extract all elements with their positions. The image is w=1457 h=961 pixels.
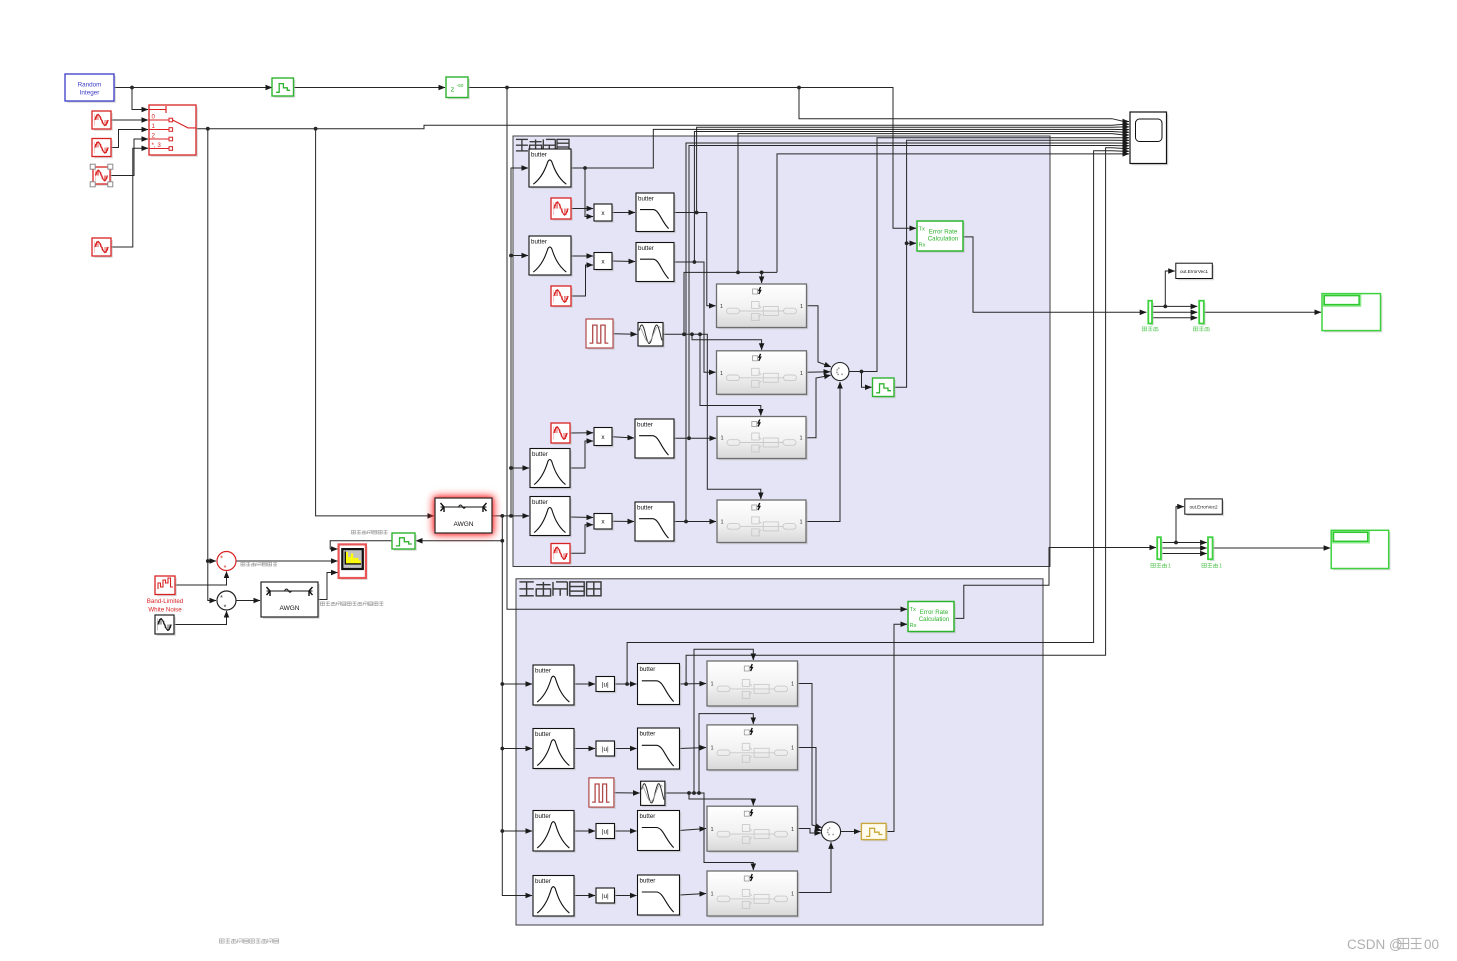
wire: nc abs1 to LP1: [615, 682, 637, 686]
block: product x1: [594, 204, 614, 223]
wire: nc trigger riser to SS2: [699, 714, 753, 793]
label: 分离器1: [1151, 563, 1171, 569]
block: oscillator envelope sync: [641, 781, 667, 807]
block: subsystem sampler 4: [717, 500, 808, 544]
wire: BP1 out up to scope line 4: [571, 129, 1129, 170]
block: subsystem sampler 1: [717, 284, 809, 329]
block: butter bandpass ncBP1: [533, 665, 576, 707]
block: abs 3: [596, 824, 616, 841]
wire: switch output east with step up, to scope line 2: [196, 124, 1129, 130]
block: product x3: [594, 428, 614, 448]
svg-text:butter: butter: [531, 239, 547, 246]
block: AWGN2 channel: [261, 582, 320, 619]
wire: sine1 to switch input 1: [111, 130, 148, 148]
block: subsystem nc sampler 1: [707, 661, 799, 708]
svg-text:1: 1: [791, 827, 794, 833]
wire: nc abs3 to LP3: [615, 830, 637, 832]
svg-text:Error Rate: Error Rate: [920, 609, 949, 616]
block: Display1: [1322, 294, 1382, 333]
block: sine src 1: [92, 139, 113, 159]
svg-text:1: 1: [710, 682, 713, 688]
wire: LP2 out east then corner down to SS2 input: [674, 260, 716, 372]
wire: BP3 out up to product3 lower input: [570, 441, 593, 468]
wire: sineA to product1 upper input: [571, 208, 593, 210]
wire: nc LP1 to SS1: [680, 682, 707, 686]
svg-text:butter: butter: [637, 422, 653, 429]
block: product x4: [594, 514, 614, 531]
svg-text:1: 1: [710, 746, 713, 752]
block: yellow stair (sampler): [861, 823, 888, 841]
svg-text:00: 00: [1424, 937, 1439, 952]
wire: SS4 out up into merge circle bottom: [807, 382, 841, 522]
wire: Sum1 out to spectrum scope input 2: [236, 560, 338, 562]
block: butter bandpass ncBP4: [533, 876, 576, 918]
svg-text:1: 1: [800, 304, 803, 310]
svg-text:AWGN: AWGN: [454, 521, 474, 528]
wire: nc BP1 to abs1: [574, 683, 595, 685]
wire: sine2 to switch input 2: [111, 139, 149, 176]
wire: riser LP1 to scope line 3: [697, 127, 1129, 213]
block: AWGN channel (selected, red glow): [435, 498, 492, 533]
block: carrier sine C: [551, 423, 572, 445]
wire: demux to mux line c: [1152, 317, 1197, 319]
svg-text:*: *: [220, 595, 223, 602]
wire: Random Integer output to Unit stair: [114, 86, 272, 90]
wire: Error Rate 2 out to demux1: [954, 548, 1156, 619]
block: Error Rate Calculation 2: [908, 602, 956, 634]
label: 合并器: [1193, 327, 1209, 331]
wire: AWGN signal up left edge to coherent BP1: [509, 168, 528, 516]
svg-text:|u|: |u|: [602, 893, 609, 900]
svg-text:1: 1: [791, 682, 794, 688]
wire: nc LP4 to SS4: [680, 894, 707, 896]
wire: product3 to LP3: [612, 437, 634, 438]
wire: carrier sync out to SS4 trigger: [663, 332, 761, 499]
svg-text:out.ErrorVec2: out.ErrorVec2: [1189, 505, 1218, 510]
svg-text:|u|: |u|: [602, 681, 609, 688]
svg-text:*: *: [224, 565, 227, 572]
wire: nc trigger riser to SS1: [694, 649, 753, 793]
wire: stair2 out up to Rx tee and scope line 8: [894, 140, 1129, 387]
wire: riser trigger to scope line 13: [777, 154, 1129, 273]
block: subsystem nc sampler 2: [707, 725, 799, 772]
block: butter lowpass ncLP4: [638, 875, 682, 917]
wire: demux1 to mux1 line a: [1162, 541, 1206, 545]
wire: nc BP3 to abs3: [574, 830, 595, 832]
wire: product1 to LP1: [612, 212, 635, 214]
wire: LP3 to SS3: [674, 436, 716, 440]
block: demux 分离器: [1148, 301, 1153, 326]
svg-text:Rx: Rx: [919, 243, 926, 249]
wire: drop from switch line to Sum2 left input: [206, 129, 216, 601]
wire: trigger line to SS1 and risers: [684, 271, 777, 335]
svg-text:-50: -50: [457, 83, 464, 89]
wire: LP4 to SS4: [674, 520, 716, 524]
label: 高斯白噪声与单频噪声 (bottom): [219, 939, 278, 943]
block: mux1 合并器1: [1208, 537, 1214, 561]
wire: sineC to product3 upper input: [570, 432, 593, 434]
wire: stub into Sum1 left input: [208, 560, 216, 562]
svg-text:Integer: Integer: [80, 90, 100, 97]
wire: SS2 out to merge circle: [807, 371, 831, 374]
block: subsystem sampler 2: [717, 351, 809, 396]
block: square wave clock 2: [589, 778, 616, 809]
wire: z-50 branch riser to scope line 1: [799, 88, 1129, 122]
label: 带限白噪声信道: [241, 562, 277, 566]
svg-text:1: 1: [720, 304, 723, 310]
svg-text:Tx: Tx: [919, 227, 926, 233]
svg-text:1: 1: [799, 519, 802, 525]
svg-text:butter: butter: [640, 731, 656, 738]
wire: square wave to carrier sync: [613, 333, 637, 336]
svg-text:1: 1: [710, 892, 713, 898]
block: Sum2 (circle): [217, 591, 236, 612]
wire: BP2 to product2 upper input: [571, 255, 593, 257]
wire: riser LP3 to scope line 10: [689, 146, 1129, 439]
wire: SS3 out to merge circle: [807, 375, 831, 438]
block: stair2 (green): [873, 378, 896, 398]
svg-text:*: *: [224, 605, 227, 612]
wire: merge circle out riser to scope line 7: [849, 138, 1129, 374]
wire: nc BP4 to abs4: [574, 895, 595, 897]
svg-text:1: 1: [1219, 564, 1222, 570]
label: watermark CSDN @追梦00: [1347, 937, 1439, 952]
svg-text:|u|: |u|: [602, 828, 609, 835]
wire: demux1 to mux1 line c: [1162, 553, 1206, 555]
wire: sync out to nc SS4 trigger: [665, 791, 753, 870]
svg-text:butter: butter: [535, 878, 551, 885]
wire: nc BP2 to abs2: [574, 748, 595, 750]
wire: stub to coh BP3: [511, 467, 529, 469]
wire: branch down into stair2: [862, 372, 872, 388]
wire: nc abs4 to LP4: [615, 895, 637, 897]
block: Scope (13 inputs): [1130, 112, 1168, 165]
svg-text:butter: butter: [535, 668, 551, 675]
block: out.ErrorVec1 (to workspace): [1176, 263, 1214, 280]
wire: mux1 out to Display2: [1213, 547, 1330, 549]
svg-text:butter: butter: [531, 152, 547, 159]
wire: riser LP4 to scope line 9: [686, 143, 1129, 522]
wire: stub to nc BP1: [502, 683, 532, 685]
svg-text:1: 1: [1168, 564, 1171, 570]
block: butter lowpass LP1: [636, 193, 676, 233]
wire: feed left into green stair3 (right side input): [416, 540, 502, 542]
svg-text:butter: butter: [640, 666, 656, 673]
block: stair3 (green, noise channel tap): [392, 533, 417, 551]
svg-text:1: 1: [791, 746, 794, 752]
block: butter lowpass LP3: [635, 419, 676, 460]
wire: nc LP1 riser to scope line 11: [686, 148, 1129, 684]
svg-text:butter: butter: [640, 813, 656, 820]
wire: BP1 out branch down to product1 lower input: [585, 168, 593, 217]
wire: sineB to product2 lower input: [571, 265, 593, 296]
block: oscillator carrier sync 1: [638, 323, 665, 348]
wire: nc abs1 riser to scope line 12: [627, 151, 1129, 684]
svg-text:CSDN @: CSDN @: [1347, 937, 1403, 952]
block: product x2: [594, 253, 614, 272]
svg-text:White Noise: White Noise: [148, 607, 182, 614]
block: sine src 2 (selected): [90, 164, 113, 187]
block: butter lowpass ncLP1: [638, 664, 682, 707]
wire: Sum2 out to AWGN2: [236, 600, 260, 602]
block: mux 合并器: [1199, 301, 1205, 326]
block: demux1 分离器1: [1157, 537, 1163, 561]
svg-text:0: 0: [152, 114, 156, 121]
svg-text:1: 1: [710, 827, 713, 833]
wire: stub to nc BP3: [502, 830, 532, 832]
block: butter bandpass BP4: [530, 497, 572, 538]
wire: stub to nc BP2: [502, 748, 532, 750]
block: Error Rate Calculation 1: [917, 221, 965, 253]
label: 高斯白噪声与单频噪声信道: [320, 602, 383, 606]
svg-text:butter: butter: [638, 196, 654, 203]
svg-text:butter: butter: [532, 499, 548, 506]
block: Sum1 (red circle): [217, 552, 236, 573]
label: 高斯白噪声信道: [351, 530, 387, 534]
wire: riser LP2 to scope line 5: [694, 132, 1129, 263]
wire: nc SS4 out up into merge circle 2 bottom: [798, 842, 832, 892]
wire: demux to mux line b: [1152, 311, 1197, 313]
block: merge circle 2: [821, 822, 840, 841]
block: butter lowpass LP2: [636, 243, 676, 284]
label: 合并器1: [1202, 563, 1222, 569]
wire: riser trigger to scope line 6: [738, 134, 1129, 273]
label: Band-Limited White Noise (red): [147, 598, 184, 614]
svg-text:butter: butter: [637, 505, 653, 512]
block: carrier sine B: [551, 286, 573, 308]
wire: z-50 out right then down to Error Rate 1 Tx: [468, 86, 916, 229]
svg-text:Random: Random: [78, 82, 102, 89]
wire: merge circle 2 out to yellow stair: [841, 831, 861, 833]
svg-text:1: 1: [800, 371, 803, 377]
wire: AWGN signal down left edge to non-coherent BP4: [500, 516, 532, 896]
wire: trigger riser to SS2: [692, 334, 762, 350]
wire: demux1 to mux1 line b: [1162, 547, 1206, 549]
wire: trigger riser to SS3: [700, 334, 761, 415]
wire: stair3 out to spectrum scope input 1: [330, 541, 392, 549]
block: sine src 3: [92, 238, 113, 258]
label: 分离器: [1142, 327, 1158, 331]
svg-text:*: *: [220, 556, 223, 563]
wire: stub to coh BP2: [511, 255, 528, 257]
block: carrier sine D: [551, 544, 572, 565]
svg-text:1: 1: [720, 519, 723, 525]
svg-text:|u|: |u|: [602, 746, 609, 753]
wire: nc SS3 out to merge circle 2: [798, 829, 822, 834]
block: carrier sine A: [551, 198, 573, 221]
block: subsystem nc sampler 3: [707, 806, 799, 853]
wire: nc abs2 to LP2: [615, 748, 637, 750]
block: butter bandpass BP2: [529, 236, 573, 277]
block: sine src 0: [92, 111, 113, 131]
block: butter bandpass ncBP2: [533, 729, 576, 771]
svg-text:Calculation: Calculation: [919, 616, 950, 623]
wire: LP1 out east then corner down to SS1 input: [674, 211, 716, 306]
wire: branch down to switch control input: [132, 88, 148, 110]
wire: tee up to out.ErrorVec2: [1176, 507, 1184, 543]
block: z^-50 delay: [446, 77, 470, 99]
block: spectrum analyzer: [339, 544, 368, 579]
wire: AWGN out to coherent BP4 input: [492, 514, 529, 518]
wire: trigger drop into SS1: [761, 272, 763, 283]
block: multiport switch (red): [149, 105, 198, 157]
wire: sine3 to switch input *,3: [111, 148, 148, 247]
svg-text:Band-Limited: Band-Limited: [147, 598, 184, 605]
block: abs 4: [596, 888, 616, 905]
wire: product4 to LP4: [612, 520, 634, 522]
block: Band-Limited White Noise: [155, 576, 177, 596]
svg-text:AWGN: AWGN: [280, 605, 300, 612]
svg-text:1: 1: [720, 436, 723, 442]
svg-text:butter: butter: [535, 813, 551, 820]
wire: demux to mux line a: [1152, 305, 1197, 309]
wire: drop from switch line into AWGN channel input: [316, 129, 434, 516]
svg-text:butter: butter: [535, 731, 551, 738]
wire: yellow stair out up to Error Rate 2 Rx: [886, 624, 907, 831]
svg-text:butter: butter: [640, 878, 656, 885]
svg-text:butter: butter: [638, 245, 654, 252]
wire: nc LP2 to SS2: [680, 748, 707, 749]
svg-text:1: 1: [791, 892, 794, 898]
block: abs 1: [596, 677, 616, 694]
block: merge circle 1: [831, 363, 849, 381]
block: butter bandpass BP3: [530, 449, 572, 490]
svg-text:Tx: Tx: [910, 607, 917, 613]
svg-text:z: z: [451, 85, 455, 94]
block: butter bandpass ncBP3: [533, 811, 576, 853]
wire: Band-Limited White Noise to Sum1 bottom: [175, 572, 227, 586]
block: Random Integer generator: [65, 74, 116, 103]
wire: SS1 out to merge circle: [807, 306, 831, 367]
block: butter lowpass ncLP2: [638, 728, 682, 771]
wire: sine tone source to Sum2 bottom: [174, 611, 227, 625]
wire: stub into Error Rate 1 Rx: [907, 242, 916, 244]
block: butter lowpass ncLP3: [638, 811, 682, 853]
block: single tone sine source (black): [155, 615, 176, 636]
svg-text:Error Rate: Error Rate: [929, 229, 958, 236]
block: butter lowpass LP4: [635, 502, 676, 543]
wire: square wave 2 to envelope sync: [614, 792, 640, 794]
wire: nc SS1 out to merge circle 2: [798, 684, 822, 828]
block: butter bandpass BP1: [529, 149, 573, 189]
svg-text:Calculation: Calculation: [928, 236, 959, 243]
svg-text:Rx: Rx: [910, 623, 917, 629]
wire: z-50 branch down the left side to Error Rate 2 Tx: [507, 88, 907, 610]
svg-text:out.ErrorVec1: out.ErrorVec1: [1180, 269, 1209, 274]
svg-text:butter: butter: [532, 451, 548, 458]
non-coherent demod section box 非相干解调: [516, 579, 1043, 925]
wire: AWGN2 out to spectrum scope input 3: [318, 573, 338, 600]
svg-text:1: 1: [799, 436, 802, 442]
block: square wave clock 1: [586, 319, 615, 350]
wire: tee up to out.ErrorVec1: [1165, 271, 1175, 306]
wire: Error Rate 1 out to demux: [963, 237, 1146, 312]
wire: nc trigger riser to SS3: [689, 793, 753, 805]
block: subsystem nc sampler 4: [707, 871, 799, 918]
wire: mux out to Display1: [1204, 311, 1321, 313]
wire: stair to z-50 delay: [294, 87, 446, 89]
block: Display2: [1331, 530, 1390, 570]
svg-text:1: 1: [720, 371, 723, 377]
block: out.ErrorVec2 (to workspace): [1185, 499, 1224, 516]
block: abs 2: [596, 741, 616, 758]
wire: BP4 to product4 upper input: [570, 516, 593, 519]
wire: nc LP3 to SS3: [680, 829, 707, 831]
wire: nc SS2 out to merge circle 2: [798, 748, 822, 831]
block: subsystem sampler 3: [717, 417, 808, 461]
wire: sine0 to switch input 0: [111, 119, 148, 121]
block: unit stair (rate transition) green: [272, 78, 295, 98]
wire: product2 to LP2: [612, 260, 635, 263]
wire: sineD to product4 lower input: [570, 525, 593, 554]
coherent demod section box 相干解调: [513, 136, 1050, 567]
